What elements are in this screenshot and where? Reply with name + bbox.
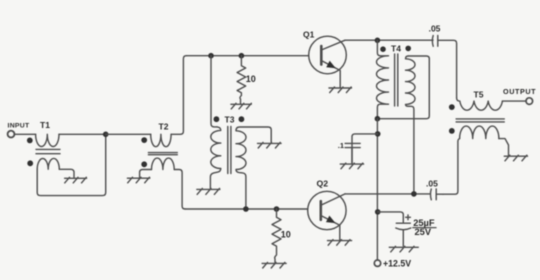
svg-text:10: 10 (246, 74, 256, 84)
node E junction dot (274, 206, 280, 212)
Q1 base bar (320, 46, 323, 65)
T3 phasing dot primary (214, 116, 220, 122)
T5 phasing dot primary (449, 104, 455, 110)
svg-text:Q1: Q1 (303, 30, 315, 40)
wire T3 primary top lead (211, 56, 217, 127)
wire T5 secondary right to ground (499, 139, 509, 156)
wire node A to T2 (106, 133, 151, 135)
node D junction dot (243, 206, 249, 212)
Q2 emitter lead (321, 216, 340, 241)
svg-text:25V: 25V (415, 227, 432, 237)
ground T5 (504, 155, 527, 161)
ground T3 primary (197, 188, 220, 194)
Q2 collector lead (321, 194, 345, 205)
transformer T1 primary (36, 134, 59, 146)
transformer T4 secondary (406, 56, 416, 194)
wire T5 secondary left down to C3 (443, 139, 460, 195)
svg-text:T3: T3 (225, 115, 235, 125)
wire Q2 collector rail (345, 193, 430, 195)
svg-text:T1: T1 (40, 120, 50, 130)
node G junction dot (375, 116, 381, 122)
wire T4 secondary top loop (377, 56, 429, 119)
Q1 collector lead (321, 40, 345, 50)
ground T1 (65, 177, 87, 183)
transformer T1 core (36, 149, 60, 153)
svg-text:INPUT: INPUT (8, 122, 30, 129)
ground C1 (340, 163, 363, 169)
svg-text:Q2: Q2 (317, 178, 329, 188)
transformer T5 primary (457, 98, 503, 110)
transformer T5 core (456, 119, 504, 122)
svg-text:OUTPUT: OUTPUT (503, 87, 536, 96)
svg-text:+12.5V: +12.5V (383, 259, 411, 269)
wire T1 secondary loop to node A (37, 134, 106, 195)
node I junction dot (375, 209, 381, 215)
transformer T4 primary (377, 40, 389, 118)
transformer T1 secondary (37, 158, 59, 169)
wire T2 secondary left to ground (140, 170, 152, 178)
svg-text:T2: T2 (159, 121, 169, 131)
wire input to T1 (14, 133, 35, 135)
node F junction dot (375, 38, 381, 44)
C4 fraction bar (413, 227, 436, 229)
svg-text:T5: T5 (474, 89, 484, 99)
capacitor C4 25uF plates (396, 223, 411, 230)
wire T5 primary to output (502, 100, 526, 102)
transformer T2 primary (151, 134, 171, 146)
transformer T3 secondary (236, 127, 271, 209)
svg-text:10: 10 (281, 229, 291, 239)
ground T3 secondary (258, 142, 282, 148)
transformer T3 primary (210, 127, 220, 189)
node A junction dot (103, 132, 109, 138)
node H junction dot (375, 131, 381, 137)
T5 phasing dot secondary (449, 128, 455, 134)
transformer T4 core (395, 54, 398, 106)
T3 phasing dot secondary (239, 116, 245, 122)
ground R1 (231, 103, 251, 109)
wire C4 to ground (402, 230, 404, 246)
wire C2 to T5 (438, 40, 457, 98)
+12.5V terminal (374, 260, 380, 266)
ground R2 (262, 262, 286, 268)
T2 phasing dot secondary (141, 161, 147, 167)
wire T2 secondary right down to bottom rail (174, 170, 185, 210)
transformer T5 secondary (460, 126, 499, 139)
output terminal (526, 98, 533, 105)
svg-text:.05: .05 (429, 23, 441, 33)
top rail (186, 55, 308, 57)
node B junction dot (208, 53, 214, 59)
Q1 emitter lead (321, 61, 340, 88)
Q2 base bar (319, 201, 322, 220)
wire T1 primary to node A (59, 133, 106, 135)
node C junction dot (239, 53, 245, 59)
wire C1 to ground (351, 148, 353, 163)
wire T2 primary right up to top rail (171, 56, 186, 135)
Q1 emitter arrow (326, 61, 336, 68)
wire T1 secondary right to ground (59, 169, 74, 177)
transistor Q2 (308, 191, 346, 229)
supply line down (376, 119, 378, 260)
ground C4 (389, 246, 418, 252)
svg-text:T4: T4 (391, 43, 401, 53)
T2 phasing dot primary (141, 137, 147, 143)
T4 phasing dot primary (380, 46, 386, 52)
ground T2 (127, 177, 149, 183)
transformer T3 core (228, 127, 231, 174)
resistor R1 10 (237, 56, 246, 104)
capacitor C2 .05 top (432, 36, 437, 47)
electrolytic C4 wire (378, 212, 404, 223)
capacitor .1 wire (352, 134, 378, 163)
T4 phasing dot secondary (405, 46, 411, 52)
transformer T2 core (148, 153, 177, 155)
bottom rail (185, 208, 308, 210)
transformer T2 secondary (152, 158, 175, 169)
resistor R2 10 (272, 209, 281, 263)
capacitor C1 .1 (345, 143, 360, 147)
T1 phasing dot primary (27, 138, 33, 144)
T1 phasing dot secondary (27, 160, 33, 166)
svg-text:.1: .1 (338, 141, 344, 150)
svg-text:.05: .05 (426, 179, 438, 189)
Q2 emitter arrow (326, 216, 336, 224)
capacitor C3 .05 bottom (430, 189, 443, 200)
ground Q2 emitter (328, 240, 352, 246)
transistor Q1 (309, 36, 347, 74)
node J junction dot (411, 191, 417, 197)
ground Q1 emitter (329, 87, 352, 93)
input terminal (8, 131, 15, 138)
wire Q1 collector (345, 39, 433, 41)
C4 plus sign (406, 215, 411, 220)
